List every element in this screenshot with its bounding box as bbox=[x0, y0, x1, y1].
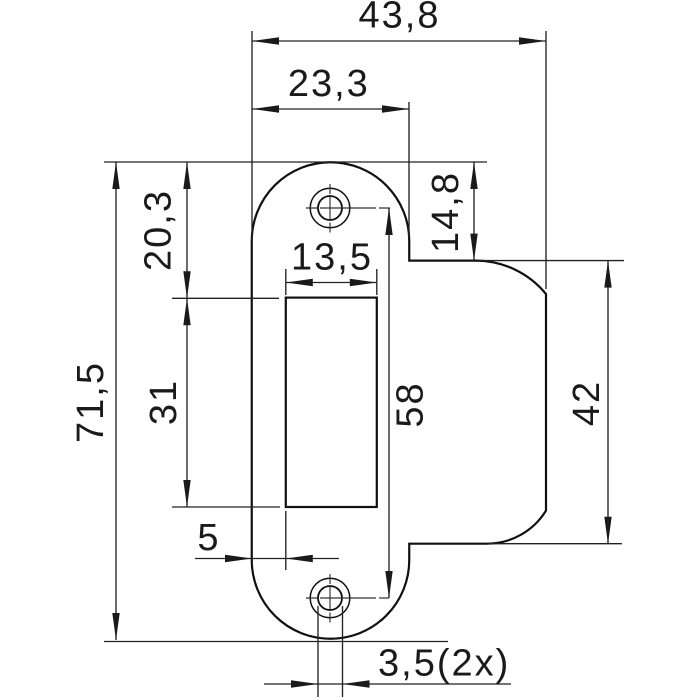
arrow 58 bottom bbox=[385, 571, 392, 598]
bottom hole horizontal centerline bbox=[306, 597, 389, 599]
svg-text:23,3: 23,3 bbox=[288, 63, 370, 105]
bottom screw hole outer circle bbox=[310, 578, 350, 618]
dimension 23,3 line bbox=[252, 108, 409, 110]
arrow 71,5 top bbox=[112, 162, 119, 189]
dimension 58 line bbox=[388, 208, 390, 598]
svg-text:31: 31 bbox=[143, 379, 185, 425]
arrow 31 top bbox=[183, 298, 190, 325]
extension tick: cutout right x=376.8 (for 13,5) bbox=[376, 269, 378, 295]
svg-text:3,5(2x): 3,5(2x) bbox=[378, 643, 510, 685]
svg-text:43,8: 43,8 bbox=[359, 0, 441, 37]
extension tick: cutout left x=286 (for 13,5) bbox=[285, 269, 287, 295]
arrow 42 top bbox=[604, 261, 611, 288]
arrow 13,5 left bbox=[286, 279, 313, 286]
extension line: lip step top y=261 (for 42) bbox=[478, 260, 624, 262]
extension line: cutout bottom level y=507 (for 31) bbox=[172, 506, 280, 508]
dimension 43,8 line bbox=[252, 40, 546, 42]
extension line: hole edge x=342.5 (for 3,5) bbox=[342, 606, 344, 697]
arrow 43,8 right bbox=[519, 37, 546, 44]
arrow 5 left (outside, points right) bbox=[225, 555, 252, 562]
top hole horizontal centerline (extends right to 58-dim line) bbox=[306, 207, 390, 209]
extension line: cutout left edge down x=286 (for 5) bbox=[285, 511, 287, 570]
arrow 31 bottom bbox=[183, 480, 190, 507]
svg-text:20,3: 20,3 bbox=[138, 189, 180, 271]
arrow 3,5 right (outside, points left) bbox=[343, 680, 370, 687]
arrow 58 top bbox=[385, 208, 392, 235]
extension line: plate top level y=162 (for 71,5 / 20,3 / 14,8) bbox=[104, 161, 487, 163]
arrow 5 right (outside, points left) bbox=[286, 555, 313, 562]
arrow 23,3 right bbox=[382, 105, 409, 112]
plate outline bbox=[252, 162, 546, 638]
svg-text:71,5: 71,5 bbox=[70, 361, 112, 443]
arrow 14,8 bottom bbox=[470, 234, 477, 261]
dimension 5 line bbox=[195, 558, 339, 560]
extension line: right body edge x=409 (for 23,3) bbox=[408, 102, 410, 238]
extension line: cutout top level y=298.3 (for 20,3 / 31) bbox=[172, 297, 279, 299]
extension line: lip step bottom y=543.7 (for 42) bbox=[487, 543, 622, 545]
top screw hole outer circle bbox=[310, 188, 350, 228]
arrow 14,8 top bbox=[470, 162, 477, 189]
bottom hole vertical centerline bbox=[329, 574, 331, 623]
bottom screw hole inner circle bbox=[318, 586, 342, 610]
arrow 3,5 left (outside, points right) bbox=[291, 680, 318, 687]
arrow 13,5 right bbox=[350, 279, 377, 286]
dimension 13,5 line bbox=[286, 282, 377, 284]
dimension 71,5 line bbox=[115, 162, 117, 640]
svg-text:42: 42 bbox=[566, 380, 608, 426]
arrow 42 bottom bbox=[604, 517, 611, 544]
dimension 42 line bbox=[607, 261, 609, 544]
top screw hole inner circle bbox=[318, 196, 342, 220]
dimension 14,8 line bbox=[473, 162, 475, 261]
svg-text:58: 58 bbox=[390, 381, 432, 427]
extension line: left plate edge x=252 (for 43,8 / 23,3) bbox=[251, 31, 253, 240]
arrow 20,3 top bbox=[183, 162, 190, 189]
dimension 3,5 line bbox=[264, 683, 511, 685]
svg-text:5: 5 bbox=[197, 517, 220, 559]
arrow 23,3 left bbox=[252, 105, 279, 112]
arrow 71,5 bottom bbox=[112, 613, 119, 640]
svg-text:14,8: 14,8 bbox=[425, 171, 467, 253]
extension line: plate bottom level y=641.5 (for 71,5) bbox=[104, 641, 448, 643]
latch cutout rectangle bbox=[286, 298, 377, 507]
top hole vertical centerline bbox=[329, 184, 331, 233]
extension line: lip right edge x=546 (for 43,8) bbox=[545, 31, 547, 289]
svg-text:13,5: 13,5 bbox=[291, 237, 373, 279]
dimension 20,3 / 31 line bbox=[186, 162, 188, 507]
arrow 20,3 bottom bbox=[183, 271, 190, 298]
arrow 43,8 left bbox=[252, 37, 279, 44]
extension line: hole edge x=318 (for 3,5) bbox=[317, 606, 319, 697]
